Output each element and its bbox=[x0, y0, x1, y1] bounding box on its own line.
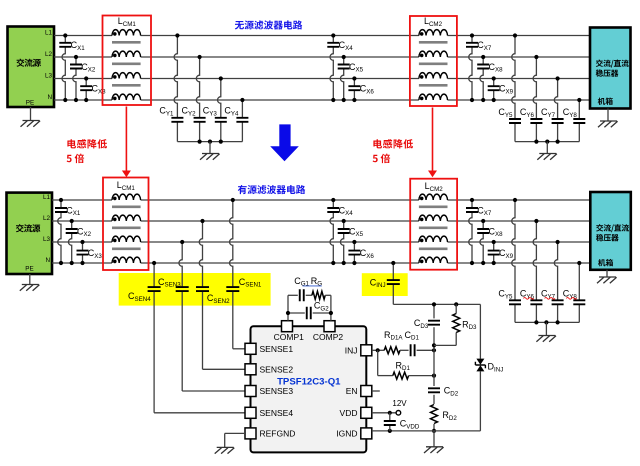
annotation 电感降低 5 倍 (left) bbox=[67, 139, 107, 163]
pin label L2 (top AC source) bbox=[45, 51, 53, 58]
pin label L1 (top AC source) bbox=[45, 29, 53, 36]
capacitor CX5 (top) bbox=[338, 55, 364, 102]
pin SENSE3 bbox=[245, 386, 293, 397]
node INJ rail junction CD3 bbox=[432, 302, 436, 306]
inductor winding LCM1 phase 4 bbox=[112, 257, 141, 263]
title 有源滤波器电路 (active filter circuit) bbox=[238, 185, 305, 194]
wire VDD to 12V terminal bbox=[372, 399, 407, 415]
capacitor CX8 (top) bbox=[477, 55, 503, 102]
svg-text:EN: EN bbox=[346, 386, 358, 396]
op-amp U1 TPSF12C3-Q1 body bbox=[251, 326, 367, 452]
capacitor CSEN2 and wire to SENSE2 bbox=[196, 219, 245, 369]
blue block arrow (down) bbox=[270, 124, 299, 161]
svg-text:INJ: INJ bbox=[345, 345, 358, 355]
pin label N (bottom AC source) bbox=[45, 257, 50, 264]
pin REFGND bbox=[245, 428, 295, 439]
svg-text:VDD: VDD bbox=[340, 408, 358, 418]
capacitor CY5 (bottom) bbox=[498, 198, 521, 323]
svg-text:L1: L1 bbox=[43, 194, 51, 201]
label LCM2 bbox=[425, 181, 444, 193]
capacitor CX1 (bottom) bbox=[55, 198, 81, 265]
core bar LCM1 bbox=[112, 84, 141, 87]
resistor RG bbox=[312, 291, 331, 299]
label CSEN4 bbox=[128, 291, 151, 303]
capacitor CX4 (top) bbox=[327, 33, 353, 102]
wire L3 line (top section) bbox=[54, 78, 590, 80]
core bar LCM2 bbox=[419, 248, 448, 251]
node bottom rail junction RD2 bbox=[432, 429, 436, 433]
red arrow (to bottom LCM1) bbox=[122, 107, 131, 178]
wire to COMP2 bbox=[330, 295, 332, 320]
capacitor CINJ bbox=[370, 261, 400, 305]
core bar LCM2 bbox=[419, 62, 448, 65]
svg-text:IGND: IGND bbox=[336, 428, 357, 438]
resistor RD1A bbox=[384, 347, 408, 354]
svg-text:L2: L2 bbox=[43, 215, 51, 222]
svg-text:L1: L1 bbox=[45, 29, 53, 36]
ground (top CY1-CY4) bbox=[200, 142, 220, 160]
capacitor CSEN3 and wire to SENSE3 bbox=[176, 240, 245, 391]
IC name TPSF12C3-Q1 bbox=[277, 377, 341, 388]
svg-text:L3: L3 bbox=[45, 72, 53, 79]
ground (top chassis 机箱) bbox=[598, 109, 618, 128]
pin SENSE2 bbox=[245, 364, 293, 375]
label CSEN3 bbox=[158, 277, 181, 289]
inductor winding LCM1 phase 3 bbox=[112, 73, 141, 79]
capacitor CX3 (top) bbox=[80, 76, 106, 102]
label CSEN1 bbox=[239, 277, 262, 289]
wire L1 line (bottom section) bbox=[52, 199, 590, 201]
wire COMP1 to compensation network bbox=[288, 295, 298, 320]
red arrow (to bottom LCM2) bbox=[428, 108, 437, 178]
capacitor CY7 (top) bbox=[541, 76, 564, 141]
core bar LCM2 bbox=[419, 84, 448, 87]
svg-text:PE: PE bbox=[25, 266, 33, 273]
capacitor CX7 (bottom) bbox=[466, 198, 492, 265]
wire L1 line (top section) bbox=[54, 35, 590, 37]
pin EN bbox=[346, 386, 372, 397]
capacitor CX5 (bottom) bbox=[338, 219, 364, 265]
capacitor CY7 (bottom) bbox=[541, 240, 564, 323]
pin VDD bbox=[340, 407, 372, 418]
capacitor CX6 (top) bbox=[348, 76, 374, 102]
capacitor CX8 (bottom) bbox=[477, 219, 503, 265]
label RD1A bbox=[384, 330, 403, 342]
inductor winding LCM2 phase 1 bbox=[419, 30, 448, 36]
inductor winding LCM2 phase 2 bbox=[419, 51, 448, 57]
pin label PE (bottom AC source) bbox=[25, 266, 33, 273]
wire CY5-CY8 ground rail (bottom) bbox=[515, 321, 579, 323]
ground (bottom AC source PE) bbox=[20, 274, 40, 291]
highlight CINJ bbox=[362, 273, 408, 296]
wire L3 line (bottom section) bbox=[52, 241, 590, 243]
capacitor CY3 (top) bbox=[203, 76, 227, 141]
core bar LCM1 bbox=[112, 248, 141, 251]
pin SENSE4 bbox=[245, 407, 293, 418]
ground (bottom chassis 机箱) bbox=[597, 270, 617, 283]
capacitor CG2 bbox=[288, 307, 331, 320]
inductor winding LCM1 phase 1 bbox=[112, 194, 141, 200]
wire CY5-CY8 ground rail (top) bbox=[515, 141, 579, 143]
pin COMP1 bbox=[274, 321, 305, 342]
AC/DC regulator box 交流/直流稳压器 (bottom) bbox=[590, 192, 631, 270]
pin label L2 (bottom AC source) bbox=[43, 215, 51, 222]
pin IGND bbox=[336, 428, 372, 439]
wire INJ top rail bbox=[393, 303, 480, 305]
title 无源滤波器电路 (passive filter circuit) bbox=[235, 20, 302, 29]
inductor winding LCM2 phase 1 bbox=[419, 194, 448, 200]
node CY rail junctions (top-left) bbox=[198, 140, 223, 144]
inductor winding LCM1 phase 2 bbox=[112, 51, 141, 57]
label CD1 bbox=[405, 330, 420, 342]
wire L2 line (bottom section) bbox=[52, 220, 590, 222]
capacitor CX4 (bottom) bbox=[327, 198, 353, 265]
core bar LCM2 bbox=[419, 206, 448, 209]
capacitor CY5 (top) bbox=[498, 33, 521, 141]
capacitor CD1 bbox=[411, 344, 437, 356]
svg-text:COMP2: COMP2 bbox=[313, 332, 344, 342]
label LCM1 bbox=[117, 180, 136, 192]
pin label N (top AC source) bbox=[47, 94, 52, 101]
pin label L3 (bottom AC source) bbox=[43, 236, 51, 243]
capacitor CX9 (top) bbox=[488, 76, 514, 102]
capacitor CY6 (top) bbox=[520, 55, 543, 142]
annotation 电感降低 5 倍 (right) bbox=[373, 139, 413, 163]
pin INJ bbox=[345, 345, 372, 356]
capacitor CSEN1 and wire to SENSE1 bbox=[226, 198, 245, 349]
svg-text:SENSE2: SENSE2 bbox=[260, 364, 294, 374]
inductor winding LCM2 phase 3 bbox=[419, 73, 448, 79]
capacitor CX3 (bottom) bbox=[77, 240, 103, 265]
wire INJ pin to RD1A bbox=[372, 348, 384, 352]
capacitor CVDD bbox=[384, 413, 420, 431]
svg-text:TPSF12C3-Q1: TPSF12C3-Q1 bbox=[277, 377, 341, 388]
label LCM2 bbox=[424, 16, 443, 28]
AC/DC regulator box 交流/直流稳压器 (top) bbox=[590, 28, 631, 109]
label CSEN2 bbox=[207, 293, 230, 305]
inductor winding LCM2 phase 4 bbox=[419, 257, 448, 263]
svg-text:N: N bbox=[47, 94, 52, 101]
svg-text:PE: PE bbox=[26, 99, 34, 106]
wire CY1-CY4 ground rail bbox=[177, 122, 242, 141]
pin label L3 (top AC source) bbox=[45, 72, 53, 79]
capacitor CX6 (bottom) bbox=[348, 240, 374, 265]
label CG1 RG bbox=[294, 276, 322, 288]
core bar LCM1 bbox=[112, 62, 141, 65]
pin label L1 (bottom AC source) bbox=[43, 194, 51, 201]
capacitor CX1 (top) bbox=[59, 33, 85, 102]
inductor winding LCM1 phase 1 bbox=[112, 30, 141, 36]
capacitor CD3 bbox=[414, 318, 440, 330]
AC source box 交流源 bbox=[8, 27, 55, 108]
resistor RD1 bbox=[378, 350, 436, 379]
capacitor CD2 bbox=[428, 386, 459, 398]
diode DINJ bbox=[475, 304, 503, 431]
svg-text:L2: L2 bbox=[45, 51, 53, 58]
svg-text:SENSE1: SENSE1 bbox=[260, 344, 294, 354]
pin SENSE1 bbox=[245, 343, 293, 354]
capacitor CG1 bbox=[300, 289, 312, 301]
pin label PE (top AC source) bbox=[26, 99, 34, 106]
core bar LCM2 bbox=[419, 41, 448, 44]
wire EN stub bbox=[372, 390, 380, 392]
node COMP2 junction bbox=[329, 311, 333, 315]
AC source box 交流源 (bottom) bbox=[7, 193, 53, 274]
core bar LCM1 bbox=[112, 206, 141, 209]
inductor winding LCM2 phase 3 bbox=[419, 236, 448, 242]
capacitor CY8 (top) bbox=[563, 98, 586, 142]
resistor RD3 bbox=[434, 302, 477, 345]
ground (bottom CY5-CY8) bbox=[536, 322, 556, 341]
capacitor CX2 (top) bbox=[70, 55, 96, 102]
wire injection column bbox=[433, 304, 435, 431]
core bar LCM1 bbox=[112, 41, 141, 44]
ground (REFGND) bbox=[215, 433, 245, 453]
ground (top AC source PE) bbox=[21, 107, 41, 127]
node CY rail junctions (top-right) bbox=[534, 140, 559, 144]
ground (top CY5-CY8) bbox=[537, 142, 557, 160]
label LCM1 bbox=[118, 16, 137, 28]
wire N line (top section) bbox=[54, 99, 590, 101]
label CG2 bbox=[314, 301, 329, 313]
wire L2 line (top section) bbox=[54, 56, 590, 58]
core bar LCM2 bbox=[419, 227, 448, 230]
wire N line (bottom section) bbox=[52, 262, 590, 264]
capacitor CY1 (top) bbox=[159, 33, 183, 141]
capacitor CSEN4 and wire to SENSE4 bbox=[148, 261, 245, 413]
resistor RD2 bbox=[428, 404, 457, 424]
svg-text:REFGND: REFGND bbox=[260, 428, 296, 438]
svg-text:N: N bbox=[45, 257, 50, 264]
node COMP1 junction bbox=[286, 311, 290, 315]
capacitor CY4 (top) bbox=[224, 98, 248, 142]
pin COMP2 bbox=[313, 321, 344, 342]
capacitor CY2 (top) bbox=[182, 55, 206, 142]
svg-text:COMP1: COMP1 bbox=[274, 332, 305, 342]
inductor winding LCM2 phase 4 bbox=[419, 94, 448, 100]
highlight CSEN group bbox=[119, 273, 271, 306]
capacitor CX9 (bottom) bbox=[488, 240, 514, 265]
node CD3 bottom junction bbox=[432, 343, 436, 347]
inductor winding LCM1 phase 4 bbox=[112, 94, 141, 100]
svg-text:L3: L3 bbox=[43, 236, 51, 243]
svg-text:12V: 12V bbox=[392, 399, 407, 408]
wire IGND bottom rail bbox=[372, 429, 481, 433]
ground (IC injection network) bbox=[424, 431, 444, 453]
capacitor CY6 (bottom) bbox=[520, 219, 543, 323]
inductor winding LCM2 phase 2 bbox=[419, 215, 448, 221]
inductor winding LCM1 phase 2 bbox=[112, 215, 141, 221]
capacitor CY8 (bottom) bbox=[563, 261, 586, 323]
svg-text:SENSE4: SENSE4 bbox=[260, 408, 294, 418]
core bar LCM1 bbox=[112, 227, 141, 230]
node CY rail junctions (bottom) bbox=[534, 320, 559, 324]
capacitor CX7 (top) bbox=[466, 33, 492, 102]
inductor winding LCM1 phase 3 bbox=[112, 236, 141, 242]
capacitor CX2 (bottom) bbox=[66, 219, 92, 265]
